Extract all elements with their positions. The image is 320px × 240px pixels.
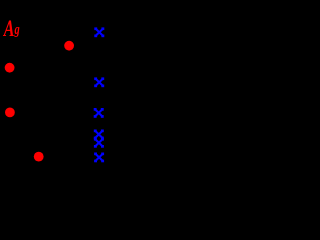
Ag atom dot 1 — [64, 41, 74, 51]
X marker 3 — [94, 108, 104, 118]
label Ag: subscript g — [14, 21, 20, 37]
X marker 4 — [94, 130, 104, 140]
X marker 1 — [94, 27, 104, 37]
svg-text:g: g — [14, 21, 20, 37]
label Ag: letter A — [2, 16, 14, 42]
X marker 2 — [94, 77, 104, 87]
X marker 6 — [94, 153, 104, 163]
Ag atom dot 2 — [5, 63, 15, 73]
X marker 5 — [94, 138, 104, 148]
Ag atom dot 3 — [5, 108, 15, 118]
svg-text:A: A — [2, 16, 14, 42]
Ag atom dot 4 — [34, 152, 44, 162]
